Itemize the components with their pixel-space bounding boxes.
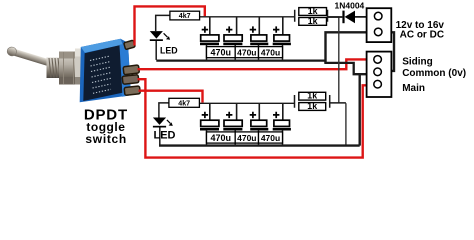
wire: top circuit top rail xyxy=(200,16,295,18)
capacitor bottom leads / label borders (bottom) xyxy=(207,130,283,145)
wire: top circuit bottom rail to Common xyxy=(156,61,373,75)
capacitor C2 (top) xyxy=(223,17,242,45)
svg-text:Siding: Siding xyxy=(402,56,433,67)
capacitor C5 (bottom) xyxy=(200,103,219,130)
svg-text:470u: 470u xyxy=(261,133,280,143)
value label 470u (top 1) xyxy=(207,47,236,58)
switch front panel xyxy=(83,45,122,101)
capacitor C1 (top) xyxy=(200,17,219,45)
resistor pair 1k 1k (bottom) xyxy=(295,91,346,111)
wire: AC return left path xyxy=(326,32,373,63)
capacitor C8 (bottom) xyxy=(273,103,291,130)
svg-text:1k: 1k xyxy=(308,6,318,16)
capacitor C3 (top) xyxy=(250,17,269,45)
wire red: pin A to Siding terminal xyxy=(138,59,374,69)
capacitor C4 (top) xyxy=(273,17,291,45)
svg-text:470u: 470u xyxy=(211,133,232,143)
wire: bottom 1k output down to bottom rail xyxy=(345,103,347,145)
diode 1N4004 xyxy=(328,1,367,24)
svg-text:Common (0v): Common (0v) xyxy=(402,68,466,79)
svg-text:switch: switch xyxy=(85,132,127,146)
wire red: pin C to bottom circuit supply xyxy=(139,91,203,103)
wire red: switch top pin to top rail xyxy=(135,6,205,45)
value label 470u (bottom 2) xyxy=(235,132,258,143)
value label 470u (bottom 1) xyxy=(207,132,236,143)
switch lever xyxy=(6,46,53,68)
terminal block J1 (supply) xyxy=(367,8,392,42)
switch washer xyxy=(75,49,83,85)
svg-text:470u: 470u xyxy=(211,48,232,58)
svg-text:1k: 1k xyxy=(308,16,318,26)
svg-text:1k: 1k xyxy=(307,91,317,101)
LED D2 (bottom) xyxy=(153,118,176,145)
svg-text:470u: 470u xyxy=(237,48,256,58)
value label 470u (bottom 3) xyxy=(259,132,283,143)
wire: diode node down to bottom 1k pair xyxy=(338,17,340,104)
svg-text:470u: 470u xyxy=(261,48,280,58)
switch pin A xyxy=(123,65,139,75)
switch pin T xyxy=(124,40,136,49)
svg-text:LED: LED xyxy=(154,129,176,141)
wire red: pin B down and around to Main terminal xyxy=(138,79,374,157)
capacitor C6 (bottom) xyxy=(223,103,242,130)
wire: AC return right path xyxy=(382,32,395,71)
svg-text:1k: 1k xyxy=(307,101,317,111)
switch body xyxy=(80,39,131,103)
wire: bottom circuit top rail xyxy=(200,102,295,104)
switch pin C xyxy=(124,86,140,95)
value label 470u (top 3) xyxy=(259,47,283,58)
terminal block J2 (siding/common/main) xyxy=(367,52,392,97)
value label 470u (top 2) xyxy=(235,47,258,58)
switch pin B xyxy=(122,75,139,85)
svg-text:Main: Main xyxy=(402,83,425,94)
svg-text:LED: LED xyxy=(160,46,178,56)
resistor pair 1k 1k (top) xyxy=(295,6,340,26)
resistor R2 4k7 (bottom) xyxy=(159,98,200,117)
capacitor bottom leads / label borders (top) xyxy=(207,45,283,61)
switch hex nut xyxy=(59,52,79,85)
resistor R1 4k7 (top) xyxy=(156,11,200,31)
svg-text:AC or DC: AC or DC xyxy=(400,30,444,41)
svg-text:470u: 470u xyxy=(237,133,256,143)
svg-text:4k7: 4k7 xyxy=(179,12,191,20)
wire: bottom circuit bottom rail up to Common xyxy=(159,75,360,146)
LED D1 (top) xyxy=(150,31,178,60)
capacitor C7 (bottom) xyxy=(250,103,269,130)
switch threaded shaft xyxy=(47,58,63,79)
toggle switch photo xyxy=(6,39,140,103)
svg-text:4k7: 4k7 xyxy=(178,99,190,107)
svg-text:1N4004: 1N4004 xyxy=(335,1,365,11)
